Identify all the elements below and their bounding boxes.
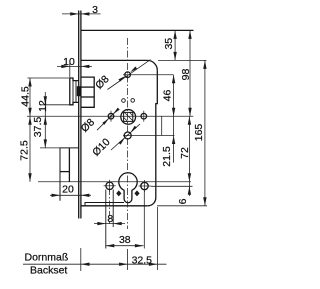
svg-text:98: 98 (180, 69, 192, 81)
arrows dim 12 (outside) (44, 96, 47, 105)
svg-text:32.5: 32.5 (132, 254, 153, 266)
dim 98 line (189, 30, 191, 116)
dim 8 line (94, 223, 125, 225)
svg-text:72.5: 72.5 (18, 140, 30, 161)
dim 38 line (106, 245, 144, 247)
ext line 38 right (143, 191, 145, 249)
arrows dim 46 (172, 75, 175, 84)
leader Ø8 mid (97, 110, 117, 130)
diamond screw left (116, 190, 121, 196)
arrows dim 72 (188, 116, 191, 125)
ext faceplate bottom (80, 248, 82, 271)
hole Ø8 top (125, 72, 131, 78)
svg-text:8: 8 (107, 213, 113, 225)
dim 35 line (174, 30, 176, 60)
svg-text:3: 3 (92, 4, 98, 16)
centerlines (27, 38, 193, 229)
follower nut (121, 110, 136, 125)
case bottom edge (81, 205, 148, 207)
dim 165 line (204, 60, 206, 205)
arrows dim 20 (outside) (52, 194, 61, 197)
arrows dim 44.5 (28, 78, 31, 87)
svg-text:165: 165 (193, 124, 205, 142)
hole Ø10 (124, 132, 131, 139)
svg-text:72: 72 (179, 147, 191, 159)
ext case right bottom (156, 207, 158, 270)
horizontal line hole 10 (123, 135, 175, 137)
arrows dim 98 (188, 30, 191, 39)
ext line deadbolt top (40, 147, 60, 149)
latch bolt head (70, 78, 79, 105)
slot centerline (109, 190, 111, 224)
arrows dim 8 (outside) (97, 222, 106, 225)
dim 12 / 37.5 line (44, 92, 46, 148)
faceplate (77, 11, 81, 219)
lower side holes (104, 180, 151, 192)
svg-text:21.5: 21.5 (161, 146, 173, 167)
horizontal line cylinder (38, 181, 191, 183)
svg-text:20: 20 (62, 184, 74, 196)
arrows dim 3 (70, 12, 79, 15)
svg-text:44.5: 44.5 (20, 86, 32, 107)
euro cylinder profile (119, 173, 137, 203)
leader lines (97, 60, 151, 150)
arrows dim 72.5 (28, 116, 31, 125)
dim 10 line (57, 65, 92, 67)
leader arrows Ø8 mid (102, 118, 109, 125)
case top edge (81, 29, 194, 31)
svg-text:Ø10: Ø10 (90, 136, 113, 159)
upper side holes (108, 111, 146, 122)
dim 32.5 / dornmass line (23, 263, 167, 265)
arrowheads (28, 12, 206, 266)
ext line latch bottom (40, 104, 70, 106)
arrows dim 35 (173, 30, 176, 39)
vertical dash-dot centerline (127, 38, 129, 229)
horizontal centerline follower (27, 115, 193, 117)
ext line y60 right (158, 59, 207, 61)
case body top edge with rounded corner (81, 60, 157, 70)
arrows dim 6 (outside) (188, 186, 191, 195)
svg-text:35: 35 (163, 38, 175, 50)
short link line between follower and hole axes (161, 116, 163, 135)
dim 3 line (62, 13, 101, 15)
svg-text:46: 46 (162, 90, 174, 102)
arrow dim 32.5 right (149, 263, 158, 266)
arrows dim 37.5 (44, 139, 47, 148)
ext line case bottom right (157, 205, 207, 207)
leader arrows Ø8 top (118, 76, 125, 82)
arrows dornmass (81, 263, 90, 266)
ext line latch front (69, 63, 71, 77)
diamond screw right (134, 190, 139, 196)
dim 44.5 / 72.5 line (29, 78, 31, 182)
dim 46 / 21.5 chain line (173, 75, 175, 163)
svg-text:Dornmaß: Dornmaß (25, 252, 69, 264)
slot below cylinder (106, 190, 113, 249)
leader Ø10 (111, 124, 140, 150)
dimension lines (23, 14, 207, 271)
label Dornmass/Backset (25, 252, 69, 277)
arrows dim 165 (203, 60, 206, 69)
horizontal line top hole (123, 74, 173, 76)
svg-text:37.5: 37.5 (32, 117, 44, 138)
dim 72 / 6 line (188, 116, 190, 196)
svg-text:38: 38 (119, 234, 131, 246)
small hole pair (122, 99, 126, 103)
leader arrows Ø10 (119, 138, 125, 145)
arrows dim 21.5 (172, 136, 175, 145)
latch bolt tail (81, 77, 94, 107)
ext line latch top (27, 77, 69, 79)
svg-text:12: 12 (37, 100, 49, 112)
ext centerline bottom (127, 249, 129, 270)
dimension texts (18, 4, 205, 266)
ext line y186.8 (151, 185, 193, 187)
svg-text:6: 6 (177, 198, 189, 204)
case right edge with notch (148, 70, 158, 205)
dim 20 line (50, 194, 91, 196)
leader Ø8 top (108, 60, 151, 90)
svg-text:Backset: Backset (30, 265, 67, 277)
arrows dim 10 (61, 65, 70, 68)
deadbolt (60, 148, 79, 201)
svg-text:10: 10 (63, 56, 75, 68)
arrows dim 38 (inside outward) (106, 244, 115, 247)
